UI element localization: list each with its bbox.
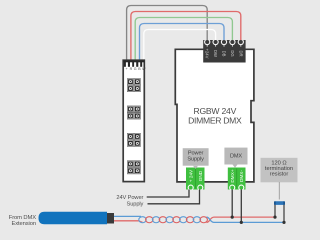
svg-text:From DMX: From DMX (9, 215, 36, 221)
top terminal labels (205, 49, 244, 59)
svg-text:DB: DB (222, 51, 227, 57)
24V Power Supply text (116, 195, 143, 207)
svg-text:G: G (134, 67, 137, 71)
svg-text:Extension: Extension (11, 221, 36, 227)
svg-text:Supply: Supply (187, 157, 204, 163)
junction resistor-blue (282, 221, 285, 224)
blue wire from cable to braid (114, 215, 141, 217)
svg-text:24V Power: 24V Power (116, 195, 143, 201)
svg-text:DMX+: DMX+ (230, 169, 235, 182)
svg-text:DMX-: DMX- (239, 170, 244, 182)
svg-text:R: R (130, 67, 133, 71)
blue wire braid to resistor (207, 217, 285, 222)
red wire from cable to braid (114, 221, 143, 223)
svg-text:DG: DG (230, 50, 235, 56)
From DMX Extension text (9, 215, 36, 227)
svg-text:Supply: Supply (127, 201, 144, 207)
red wire braid to resistor (207, 217, 276, 222)
strip pad groups (127, 79, 140, 174)
svg-text:DMX: DMX (230, 154, 242, 160)
DMX green terminal (228, 168, 246, 191)
junction DMX- (240, 221, 243, 224)
LED strip solder connector comb (123, 60, 144, 66)
svg-text:RGBW 24V: RGBW 24V (193, 106, 236, 116)
controller box outline (175, 49, 254, 182)
svg-text:Power: Power (188, 151, 204, 157)
twisted pair braid (139, 217, 208, 223)
wire R (red) strip to DR (131, 12, 241, 63)
termination resistor leads (274, 204, 276, 217)
svg-text:GND: GND (198, 170, 203, 181)
wire GND terminal to power supply (line 2) (148, 189, 200, 204)
junction resistor-red (273, 216, 276, 219)
svg-text:DR: DR (238, 50, 243, 56)
DMX label (224, 148, 247, 168)
120 ohm termination resistor label (261, 158, 298, 183)
svg-text:DIMMER DMX: DIMMER DMX (188, 116, 242, 126)
wire DMX+ to red (231, 190, 233, 218)
svg-text:+24V: +24V (205, 49, 210, 59)
wire +24V terminal to power supply (line 1) (147, 189, 189, 197)
power supply green terminal (186, 168, 205, 191)
termination resistor body (274, 201, 285, 205)
svg-text:+ 24V: + 24V (188, 169, 193, 182)
svg-text:DW: DW (213, 50, 218, 57)
wire DMX- to blue (240, 190, 242, 223)
wire G (green) strip to DG (135, 18, 232, 63)
svg-text:W: W (142, 67, 146, 71)
LED strip body (123, 60, 144, 181)
wire B (blue) strip to DB (140, 24, 225, 63)
junction DMX+ (231, 216, 234, 219)
leader line to resistor (278, 182, 280, 200)
top terminal block (203, 40, 245, 63)
cable end cap (107, 213, 114, 224)
wire +24V (gray) strip to controller (127, 6, 208, 63)
DMX extension cable (39, 212, 108, 225)
wire W (white) strip to DW (144, 30, 216, 63)
svg-text:+: + (126, 67, 128, 71)
svg-text:resistor: resistor (270, 171, 289, 177)
Power Supply label (183, 148, 209, 169)
strip pin labels + R G B W (126, 67, 147, 71)
